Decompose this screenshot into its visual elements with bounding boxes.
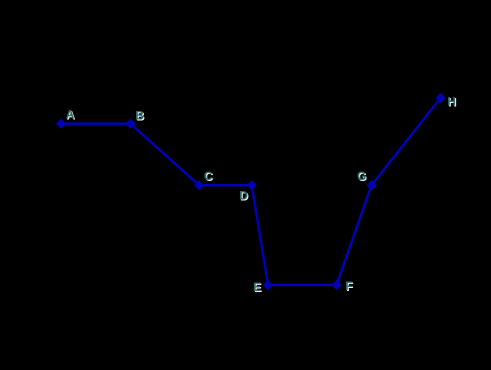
label C (204, 169, 214, 184)
label B (135, 109, 145, 124)
node H (435, 93, 445, 103)
node G (366, 180, 376, 190)
node D (247, 180, 257, 190)
svg-text:B: B (135, 109, 144, 123)
svg-text:C: C (204, 169, 213, 183)
svg-text:A: A (66, 108, 75, 122)
label D (239, 188, 249, 203)
svg-text:D: D (239, 188, 248, 202)
node C (194, 180, 204, 190)
label H (447, 94, 457, 109)
label G (357, 169, 367, 184)
node B (125, 119, 135, 129)
node E (263, 280, 273, 290)
svg-text:H: H (447, 94, 456, 108)
svg-text:E: E (253, 280, 261, 294)
wire A-B-C-D-E-F-G-H (61, 98, 441, 285)
node A (56, 119, 66, 129)
label F (345, 279, 353, 294)
svg-text:G: G (357, 169, 366, 183)
svg-text:F: F (345, 279, 352, 293)
label A (66, 108, 76, 123)
node F (331, 280, 341, 290)
label E (253, 280, 262, 295)
